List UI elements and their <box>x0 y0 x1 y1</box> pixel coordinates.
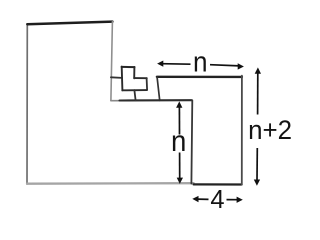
dimension arrow n (inner) <box>176 101 183 183</box>
svg-text:n: n <box>193 45 208 78</box>
svg-text:n: n <box>171 125 186 158</box>
cross piece: top edge <box>122 66 135 68</box>
dimension arrow n+2 (right) <box>254 67 261 185</box>
inner horizontal dark part <box>120 99 192 101</box>
cross piece: middle vertical <box>133 67 135 78</box>
cross piece: right vertical <box>146 78 149 90</box>
dimension arrow n (top) <box>157 61 244 70</box>
inner horizontal gray part <box>111 100 121 102</box>
cross piece: left vertical <box>121 67 124 91</box>
inner step small vertical <box>157 77 160 100</box>
cross piece: left connector <box>111 76 122 79</box>
bottom edge right (dark) <box>194 183 242 185</box>
svg-text:4: 4 <box>210 186 224 214</box>
bottom edge left (gray) <box>27 182 194 185</box>
cross piece: bottom connector <box>134 90 135 100</box>
right edge <box>241 76 243 185</box>
dimension arrow 4 (bottom) <box>192 196 243 203</box>
middle top edge <box>157 76 242 78</box>
top edge of figure <box>27 22 112 25</box>
cross piece: right arm top <box>134 77 147 79</box>
left edge of figure <box>26 24 28 184</box>
inner vertical (left of 4-column) <box>190 100 193 183</box>
cross piece: bottom edge <box>122 89 147 91</box>
svg-text:n+2: n+2 <box>248 114 292 145</box>
main vertical (right side of top block) <box>111 22 113 101</box>
